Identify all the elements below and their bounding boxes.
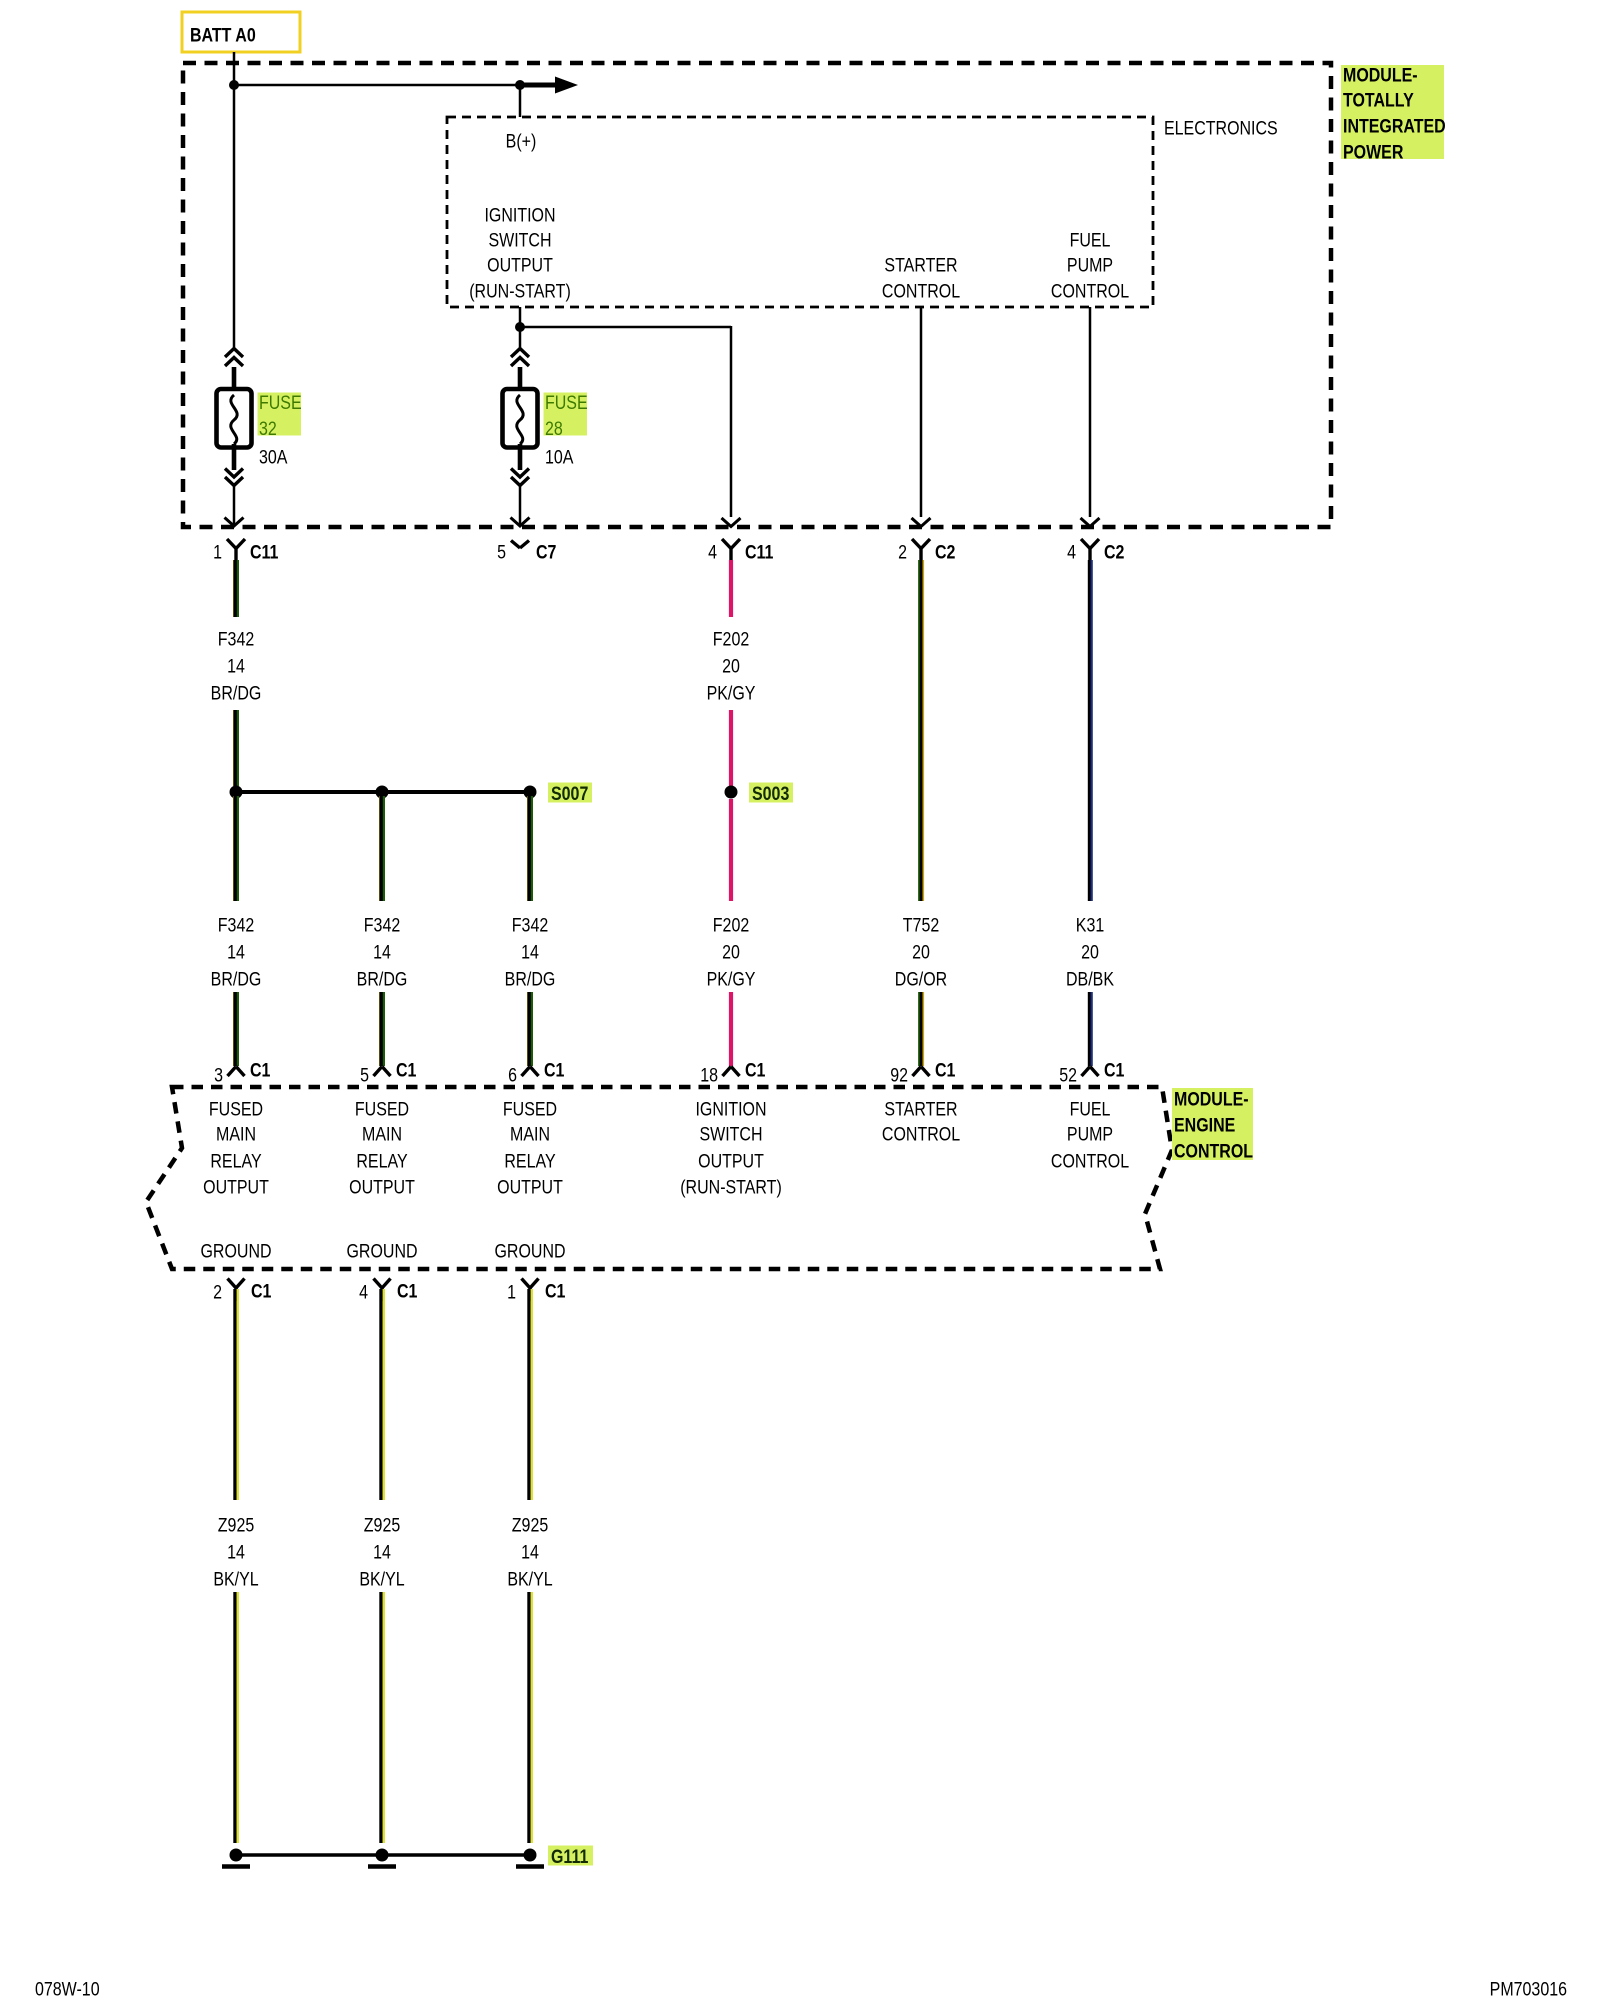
svg-text:BR/DG: BR/DG xyxy=(505,968,556,990)
svg-text:C2: C2 xyxy=(935,541,956,563)
svg-text:C1: C1 xyxy=(396,1059,417,1081)
wire fuse 28 to TIPM pin 5 C7 with arrowhead xyxy=(511,484,530,526)
splice S007 bus xyxy=(236,790,530,794)
wire Z925 ground 2 to G111 xyxy=(381,1592,384,1843)
svg-text:CONTROL: CONTROL xyxy=(882,280,960,302)
svg-text:20: 20 xyxy=(722,655,740,677)
svg-text:Z925: Z925 xyxy=(364,1514,401,1536)
wire Z925 ground 3 to G111 xyxy=(529,1592,532,1843)
node splice dot S007 left xyxy=(230,786,243,799)
fuse F28 xyxy=(503,367,538,470)
wire Z925 14 BK/YL ground 2 (upper segment) xyxy=(381,1289,384,1500)
svg-text:BR/DG: BR/DG xyxy=(211,682,262,704)
pin label GROUND (pin 1) xyxy=(494,1240,565,1262)
svg-text:C1: C1 xyxy=(251,1280,272,1302)
ground symbol 1 xyxy=(222,1849,250,1867)
label Z925 14 BK/YL (1) xyxy=(213,1514,258,1590)
label S007 (highlighted) xyxy=(548,783,592,805)
label K31 20 DB/BK xyxy=(1066,914,1114,990)
label MODULE-TOTALLY INTEGRATED POWER (highlighted) xyxy=(1341,64,1446,163)
svg-text:F342: F342 xyxy=(364,914,401,936)
svg-text:C11: C11 xyxy=(745,541,774,563)
svg-text:MAIN: MAIN xyxy=(362,1123,402,1145)
svg-text:C1: C1 xyxy=(544,1059,565,1081)
svg-text:10A: 10A xyxy=(545,446,574,468)
svg-text:20: 20 xyxy=(722,941,740,963)
svg-text:32: 32 xyxy=(259,418,277,440)
node splice dot S007 right xyxy=(524,786,537,799)
svg-text:PK/GY: PK/GY xyxy=(707,682,756,704)
label G111 (highlighted) xyxy=(548,1846,593,1868)
svg-text:PK/GY: PK/GY xyxy=(707,968,756,990)
svg-text:BK/YL: BK/YL xyxy=(359,1568,404,1590)
svg-text:14: 14 xyxy=(227,941,245,963)
node junction below electronics block xyxy=(515,322,525,332)
svg-text:SWITCH: SWITCH xyxy=(699,1123,762,1145)
label Z925 14 BK/YL (2) xyxy=(359,1514,404,1590)
svg-text:3: 3 xyxy=(214,1064,223,1086)
svg-text:BK/YL: BK/YL xyxy=(213,1568,258,1590)
svg-text:FUEL: FUEL xyxy=(1070,229,1111,251)
wire Z925 ground 1 to G111 xyxy=(235,1592,238,1843)
svg-text:DB/BK: DB/BK xyxy=(1066,968,1114,990)
svg-text:GROUND: GROUND xyxy=(346,1240,417,1262)
wire F342 branch 1 to engine control module xyxy=(234,992,238,1066)
svg-text:POWER: POWER xyxy=(1343,141,1404,163)
svg-text:OUTPUT: OUTPUT xyxy=(497,1176,563,1198)
module outline ELECTRONICS block, dashed box xyxy=(447,117,1153,307)
connector pin 52 C1 into engine control module xyxy=(1059,1059,1124,1086)
pin label FUEL PUMP CONTROL xyxy=(1051,229,1129,302)
label FUSE 28 (highlighted) xyxy=(544,392,588,440)
svg-text:S007: S007 xyxy=(551,783,588,805)
svg-text:BK/YL: BK/YL xyxy=(507,1568,552,1590)
svg-text:5: 5 xyxy=(497,541,506,563)
svg-text:20: 20 xyxy=(912,941,930,963)
inline connector chevrons below fuse 32 xyxy=(225,469,243,486)
wire branch over to pin 4 C11 xyxy=(520,326,741,527)
inline connector chevrons above fuse 32 xyxy=(225,349,243,367)
wire F342 continues to splice S007 xyxy=(234,710,238,786)
wire ignition switch output leaving electronics block xyxy=(519,307,522,328)
label F342 14 BR/DG (branch 3) xyxy=(505,914,556,990)
wire from BATT A0 into TIPM xyxy=(233,52,236,86)
ground bus wire to G111 xyxy=(236,1853,530,1857)
svg-text:F202: F202 xyxy=(713,628,750,650)
svg-text:52: 52 xyxy=(1059,1064,1077,1086)
svg-text:F342: F342 xyxy=(218,628,255,650)
label F342 14 BR/DG (branch 1) xyxy=(211,914,262,990)
svg-text:4: 4 xyxy=(359,1281,368,1303)
inline connector chevrons above fuse 28 xyxy=(511,349,529,367)
svg-text:MAIN: MAIN xyxy=(216,1123,256,1145)
svg-text:IGNITION: IGNITION xyxy=(695,1098,766,1120)
label T752 20 DG/OR xyxy=(895,914,948,990)
svg-text:F342: F342 xyxy=(218,914,255,936)
wire fuse 32 to TIPM pin 1 C11 with arrowhead xyxy=(225,484,244,526)
wire F342 branch 1 from splice S007 xyxy=(234,796,238,901)
svg-text:K31: K31 xyxy=(1076,914,1105,936)
svg-text:14: 14 xyxy=(373,1541,391,1563)
svg-text:C1: C1 xyxy=(1104,1059,1125,1081)
svg-text:CONTROL: CONTROL xyxy=(1051,280,1129,302)
svg-text:MODULE-: MODULE- xyxy=(1174,1088,1249,1110)
svg-text:OUTPUT: OUTPUT xyxy=(698,1150,764,1172)
svg-text:FUSE: FUSE xyxy=(259,392,302,414)
wire T752 20 DG/OR starter control (long segment) xyxy=(919,560,923,901)
pin label GROUND (pin 4) xyxy=(346,1240,417,1262)
sheet id PM703016 xyxy=(1490,1978,1567,2000)
svg-text:ELECTRONICS: ELECTRONICS xyxy=(1164,117,1278,139)
pin label B(+) xyxy=(506,130,537,152)
wire from ignition junction down to fuse 28 xyxy=(519,327,522,350)
svg-text:C1: C1 xyxy=(397,1280,418,1302)
svg-text:STARTER: STARTER xyxy=(884,254,957,276)
node splice dot S007 middle xyxy=(376,786,389,799)
ground symbol 3 xyxy=(516,1849,544,1867)
svg-text:C1: C1 xyxy=(545,1280,566,1302)
svg-text:5: 5 xyxy=(360,1064,369,1086)
wire F342 branch 2 from splice S007 xyxy=(380,796,384,901)
svg-text:STARTER: STARTER xyxy=(884,1098,957,1120)
wire from B+ junction down to fuse 32 xyxy=(233,85,236,350)
connector pin 3 C1 into engine control module xyxy=(214,1059,270,1086)
svg-text:FUSE: FUSE xyxy=(545,392,588,414)
inline connector chevrons below fuse 28 xyxy=(511,469,529,486)
svg-text:PUMP: PUMP xyxy=(1067,254,1113,276)
svg-text:BR/DG: BR/DG xyxy=(211,968,262,990)
svg-text:RELAY: RELAY xyxy=(356,1150,407,1172)
svg-text:OUTPUT: OUTPUT xyxy=(349,1176,415,1198)
value label 10A xyxy=(545,446,574,468)
wire T752 to engine control module pin 92 xyxy=(919,992,923,1066)
pin label GROUND (pin 2) xyxy=(200,1240,271,1262)
svg-text:S003: S003 xyxy=(752,783,789,805)
svg-text:T752: T752 xyxy=(903,914,940,936)
power source tag BATT A0 xyxy=(182,12,300,52)
svg-text:4: 4 xyxy=(708,541,717,563)
connector pin 18 C1 into engine control module xyxy=(700,1059,765,1086)
pin label IGNITION SWITCH OUTPUT (RUN-START) xyxy=(469,204,571,302)
connector pin 2 C2 (starter control) xyxy=(898,539,955,563)
pin label STARTER CONTROL (pin 92) xyxy=(882,1098,960,1145)
svg-text:FUSED: FUSED xyxy=(209,1098,263,1120)
svg-text:1: 1 xyxy=(507,1281,516,1303)
wire B+ bus continuation arrow to the right xyxy=(520,77,578,94)
label Z925 14 BK/YL (3) xyxy=(507,1514,552,1590)
node junction on B+ bus at x=234 xyxy=(229,80,239,90)
wire Z925 14 BK/YL ground 3 (upper segment) xyxy=(529,1289,532,1500)
connector pin 4 C11 (ignition switch output) xyxy=(708,539,773,563)
wire F202 to engine control module pin 18 xyxy=(729,992,733,1066)
wire starter control to TIPM pin 2 C2 with arrowhead xyxy=(912,307,931,527)
wire B+ horizontal bus xyxy=(234,84,520,87)
connector pin 4 C2 (fuel pump control) xyxy=(1067,539,1124,563)
svg-text:18: 18 xyxy=(700,1064,718,1086)
module outline ENGINE CONTROL, dashed box with jagged sides xyxy=(146,1087,1172,1269)
svg-text:(RUN-START): (RUN-START) xyxy=(680,1176,782,1198)
svg-text:OUTPUT: OUTPUT xyxy=(203,1176,269,1198)
pin label STARTER CONTROL xyxy=(882,254,960,302)
svg-text:28: 28 xyxy=(545,418,563,440)
ground symbol 2 xyxy=(368,1849,396,1867)
svg-text:14: 14 xyxy=(521,941,539,963)
label MODULE-ENGINE CONTROL (highlighted) xyxy=(1172,1088,1253,1162)
svg-text:PUMP: PUMP xyxy=(1067,1123,1113,1145)
label F202 20 PK/GY (upper) xyxy=(707,628,756,704)
connector pin 4 C1 ground output xyxy=(359,1279,417,1303)
connector pin 5 C1 into engine control module xyxy=(360,1059,416,1086)
svg-text:FUEL: FUEL xyxy=(1070,1098,1111,1120)
svg-text:MAIN: MAIN xyxy=(510,1123,550,1145)
svg-text:078W-10: 078W-10 xyxy=(35,1978,100,2000)
svg-text:C11: C11 xyxy=(250,541,279,563)
svg-text:INTEGRATED: INTEGRATED xyxy=(1343,115,1446,137)
svg-text:C2: C2 xyxy=(1104,541,1125,563)
pin label FUSED MAIN RELAY OUTPUT (pin 3) xyxy=(203,1098,269,1198)
connector pin 1 C11 (fuse 32 output) xyxy=(213,539,278,563)
svg-text:RELAY: RELAY xyxy=(210,1150,261,1172)
svg-text:30A: 30A xyxy=(259,446,288,468)
connector pin 6 C1 into engine control module xyxy=(508,1059,564,1086)
wire drop from B+ bus to electronics block B(+) pin xyxy=(519,85,522,117)
label ELECTRONICS xyxy=(1164,117,1278,139)
svg-text:G111: G111 xyxy=(551,1846,588,1868)
label FUSE 32 (highlighted) xyxy=(258,392,302,440)
label F202 20 PK/GY (lower) xyxy=(707,914,756,990)
svg-text:DG/OR: DG/OR xyxy=(895,968,948,990)
fuse F32 xyxy=(217,367,252,470)
svg-text:C7: C7 xyxy=(536,541,557,563)
node junction on B+ bus at x=520 xyxy=(515,80,525,90)
svg-text:14: 14 xyxy=(521,1541,539,1563)
svg-text:92: 92 xyxy=(890,1064,908,1086)
wire F342 branch 3 to engine control module xyxy=(528,992,532,1066)
svg-text:FUSED: FUSED xyxy=(503,1098,557,1120)
svg-text:14: 14 xyxy=(227,1541,245,1563)
label S003 (highlighted) xyxy=(749,783,793,805)
connector pin 2 C1 ground output xyxy=(213,1279,271,1303)
svg-text:CONTROL: CONTROL xyxy=(882,1123,960,1145)
svg-text:PM703016: PM703016 xyxy=(1490,1978,1567,2000)
wire K31 to engine control module pin 52 xyxy=(1089,992,1091,1066)
svg-text:2: 2 xyxy=(898,541,907,563)
svg-text:Z925: Z925 xyxy=(218,1514,255,1536)
svg-text:FUSED: FUSED xyxy=(355,1098,409,1120)
svg-text:6: 6 xyxy=(508,1064,517,1086)
svg-text:GROUND: GROUND xyxy=(200,1240,271,1262)
wire F202 from splice S003 down xyxy=(729,799,733,901)
svg-text:SWITCH: SWITCH xyxy=(488,229,551,251)
connector pin 92 C1 into engine control module xyxy=(890,1059,955,1086)
wire F202 20 PK/GY from pin 4 C11 (upper segment) xyxy=(729,560,733,617)
pin label IGNITION SWITCH OUTPUT (RUN-START) (pin 18) xyxy=(680,1098,782,1198)
pin label FUEL PUMP CONTROL (pin 52) xyxy=(1051,1098,1129,1172)
svg-text:14: 14 xyxy=(373,941,391,963)
pin label FUSED MAIN RELAY OUTPUT (pin 5) xyxy=(349,1098,415,1198)
svg-text:Z925: Z925 xyxy=(512,1514,549,1536)
svg-text:ENGINE: ENGINE xyxy=(1174,1114,1235,1136)
wire K31 20 DB/BK fuel pump control (long segment) xyxy=(1089,560,1091,901)
svg-text:BR/DG: BR/DG xyxy=(357,968,408,990)
svg-text:14: 14 xyxy=(227,655,245,677)
wire fuel pump control to TIPM pin 4 C2 with arrowhead xyxy=(1081,307,1100,527)
value label 30A xyxy=(259,446,288,468)
wire F202 continues to splice S003 xyxy=(729,710,733,786)
svg-text:MODULE-: MODULE- xyxy=(1343,64,1418,86)
svg-text:20: 20 xyxy=(1081,941,1099,963)
wire F342 14 BR/DG from pin 1 C11 (upper segment) xyxy=(234,560,238,617)
svg-text:B(+): B(+) xyxy=(506,130,537,152)
wire Z925 14 BK/YL ground 1 (upper segment) xyxy=(235,1289,238,1500)
connector pin 1 C1 ground output xyxy=(507,1279,565,1303)
svg-text:IGNITION: IGNITION xyxy=(484,204,555,226)
svg-text:TOTALLY: TOTALLY xyxy=(1343,89,1414,111)
svg-text:BATT A0: BATT A0 xyxy=(190,24,256,46)
label F342 14 BR/DG (branch 2) xyxy=(357,914,408,990)
svg-text:1: 1 xyxy=(213,541,222,563)
connector pin 5 C7 (fuse 28 output) xyxy=(497,541,556,563)
sheet number 078W-10 xyxy=(35,1978,100,2000)
label F342 14 BR/DG (circuit 1) xyxy=(211,628,262,704)
node splice S003 on pink wire xyxy=(725,786,738,799)
svg-text:4: 4 xyxy=(1067,541,1076,563)
svg-text:(RUN-START): (RUN-START) xyxy=(469,280,571,302)
svg-text:2: 2 xyxy=(213,1281,222,1303)
svg-text:C1: C1 xyxy=(250,1059,271,1081)
pin label FUSED MAIN RELAY OUTPUT (pin 6) xyxy=(497,1098,563,1198)
svg-text:F342: F342 xyxy=(512,914,549,936)
wire F342 branch 2 to engine control module xyxy=(380,992,384,1066)
svg-text:CONTROL: CONTROL xyxy=(1174,1140,1253,1162)
svg-text:GROUND: GROUND xyxy=(494,1240,565,1262)
svg-text:C1: C1 xyxy=(745,1059,766,1081)
svg-text:RELAY: RELAY xyxy=(504,1150,555,1172)
svg-text:CONTROL: CONTROL xyxy=(1051,1150,1129,1172)
module outline TIPM (totally integrated power module), dashed box xyxy=(183,63,1331,527)
svg-text:C1: C1 xyxy=(935,1059,956,1081)
svg-text:F202: F202 xyxy=(713,914,750,936)
svg-text:OUTPUT: OUTPUT xyxy=(487,254,553,276)
wire F342 branch 3 from splice S007 xyxy=(528,796,532,901)
